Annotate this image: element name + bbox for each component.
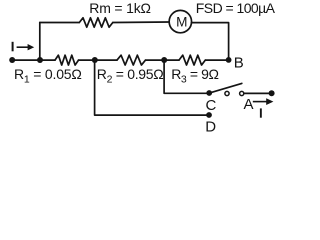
label I (output current) <box>260 108 262 117</box>
node D dot <box>206 112 212 118</box>
junction dot: R2/R3 (C tap) <box>161 57 167 63</box>
wire: Rm to meter <box>113 21 169 24</box>
meter U1 circle <box>169 10 191 32</box>
resistor R3 <box>179 55 205 65</box>
svg-text:C: C <box>206 97 217 114</box>
wire: node C branch <box>164 60 209 93</box>
svg-text:M: M <box>176 15 187 30</box>
wire: node D branch <box>95 60 209 115</box>
node C dot <box>206 90 212 96</box>
node B dot <box>226 57 232 63</box>
junction dot: Rm branch tap <box>37 57 43 63</box>
label I (input current) <box>12 42 14 52</box>
switch contact circle 2 <box>240 91 244 95</box>
svg-text:FSD = 100µA: FSD = 100µA <box>196 0 276 16</box>
wire: switch to node A <box>244 92 272 94</box>
resistor R2 <box>117 55 146 65</box>
switch contact circle 1 <box>225 91 229 95</box>
wire: top branch left of Rm <box>40 22 80 24</box>
wire: R1 to R2 <box>79 59 118 61</box>
resistor Rm <box>79 18 113 27</box>
svg-text:B: B <box>234 55 244 72</box>
svg-text:Rm = 1kΩ: Rm = 1kΩ <box>89 0 151 16</box>
junction dot: R1/R2 (D tap) <box>92 57 98 63</box>
node A dot <box>269 90 275 96</box>
wire: R2 to R3 <box>146 59 180 61</box>
wire: R3 to node B <box>205 59 228 61</box>
input current arrow <box>17 46 30 48</box>
svg-text:D: D <box>205 118 216 135</box>
svg-text:A: A <box>244 96 254 113</box>
resistor R1 <box>55 55 79 65</box>
switch blade <box>209 83 242 93</box>
wire: main line left segment <box>12 59 55 61</box>
wire: meter to corner and down to node B <box>192 23 229 61</box>
junction dot: left terminal <box>9 57 15 63</box>
wire: Rm branch riser <box>39 23 41 61</box>
output current arrow <box>253 101 267 103</box>
